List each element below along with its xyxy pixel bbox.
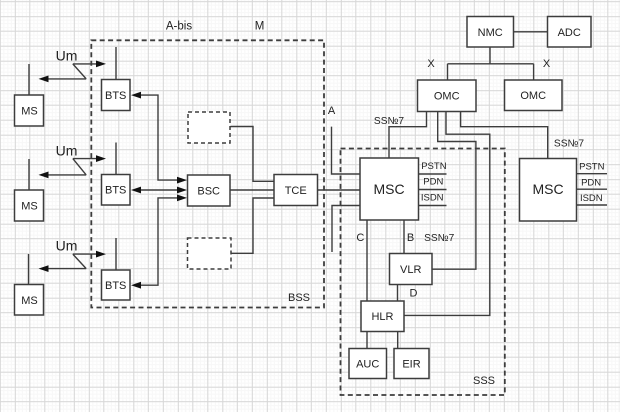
svg-text:Um: Um	[56, 238, 78, 254]
svg-text:EIR: EIR	[402, 359, 420, 371]
svg-text:B: B	[407, 232, 414, 244]
svg-text:BTS: BTS	[105, 280, 126, 292]
svg-text:A: A	[328, 105, 336, 117]
svg-text:VLR: VLR	[400, 264, 421, 276]
svg-text:OMC: OMC	[434, 91, 460, 103]
svg-text:BSS: BSS	[288, 292, 310, 304]
svg-text:PSTN: PSTN	[579, 162, 604, 173]
svg-text:BTS: BTS	[105, 185, 126, 197]
svg-text:TCE: TCE	[285, 185, 307, 197]
svg-text:BTS: BTS	[105, 90, 126, 102]
svg-text:PSTN: PSTN	[421, 161, 446, 172]
svg-text:BSC: BSC	[197, 186, 220, 198]
svg-text:D: D	[410, 288, 418, 300]
svg-text:HLR: HLR	[371, 311, 393, 323]
svg-text:AUC: AUC	[356, 359, 379, 371]
svg-text:X: X	[427, 58, 435, 70]
svg-text:ISDN: ISDN	[580, 193, 603, 204]
svg-text:OMC: OMC	[520, 90, 546, 102]
svg-text:SS№7: SS№7	[424, 233, 455, 244]
svg-text:Um: Um	[56, 142, 78, 158]
svg-text:MSC: MSC	[532, 181, 563, 197]
svg-text:MSC: MSC	[373, 181, 404, 197]
svg-text:SS№7: SS№7	[374, 116, 405, 127]
svg-text:MS: MS	[21, 201, 38, 213]
svg-text:ISDN: ISDN	[421, 192, 444, 203]
svg-text:ADC: ADC	[558, 27, 581, 39]
svg-text:SSS: SSS	[473, 375, 495, 387]
svg-text:Um: Um	[56, 48, 78, 64]
svg-text:X: X	[543, 58, 551, 70]
svg-text:MS: MS	[21, 106, 38, 118]
svg-text:MS: MS	[21, 295, 38, 307]
svg-text:C: C	[356, 232, 364, 244]
svg-text:NMC: NMC	[478, 27, 503, 39]
svg-text:PDN: PDN	[423, 176, 443, 187]
svg-text:SS№7: SS№7	[554, 139, 585, 150]
svg-text:A-bis: A-bis	[166, 21, 192, 33]
svg-text:M: M	[255, 21, 265, 33]
svg-text:PDN: PDN	[581, 178, 601, 189]
